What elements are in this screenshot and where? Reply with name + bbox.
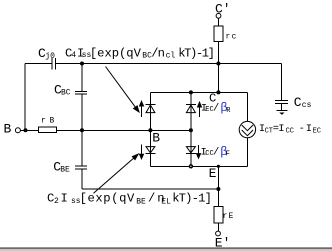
svg-text:r: r — [41, 117, 46, 126]
svg-text:kT)-1]: kT)-1] — [172, 192, 212, 206]
svg-text:C′: C′ — [215, 1, 231, 16]
svg-text:F: F — [226, 151, 230, 159]
svg-text:B: B — [50, 117, 55, 126]
svg-text:BE: BE — [136, 198, 146, 207]
svg-text:4: 4 — [71, 51, 76, 60]
svg-text:E: E — [229, 212, 234, 221]
svg-text:r: r — [226, 33, 231, 42]
svg-text:/: / — [213, 103, 219, 115]
svg-text:kT)-1]: kT)-1] — [178, 46, 215, 60]
svg-text:cl: cl — [166, 52, 176, 61]
svg-text:I: I — [61, 192, 68, 206]
svg-text:/: / — [213, 147, 219, 159]
svg-text:2: 2 — [54, 197, 59, 206]
svg-text:cs: cs — [302, 101, 312, 110]
svg-text:B: B — [152, 130, 160, 145]
svg-text:[exp(qV: [exp(qV — [80, 192, 135, 206]
svg-text:B: B — [4, 121, 12, 136]
svg-text:BC: BC — [61, 89, 71, 98]
svg-text:CT: CT — [265, 127, 273, 135]
svg-text:/n: /n — [151, 46, 165, 60]
svg-text:EL: EL — [161, 198, 171, 207]
svg-text:BE: BE — [60, 166, 70, 175]
svg-text:I: I — [278, 123, 284, 135]
svg-text:R: R — [226, 107, 231, 115]
svg-text:r: r — [223, 212, 228, 221]
svg-text:EC: EC — [313, 127, 321, 135]
svg-text:j0: j0 — [45, 52, 55, 61]
svg-text:c: c — [232, 33, 237, 42]
svg-text:I: I — [306, 123, 312, 135]
svg-text:CC: CC — [286, 127, 294, 135]
svg-text:C: C — [294, 95, 302, 110]
svg-text:[exp(qV: [exp(qV — [90, 46, 142, 60]
svg-text:E: E — [209, 166, 217, 181]
svg-text:-: - — [299, 123, 305, 135]
